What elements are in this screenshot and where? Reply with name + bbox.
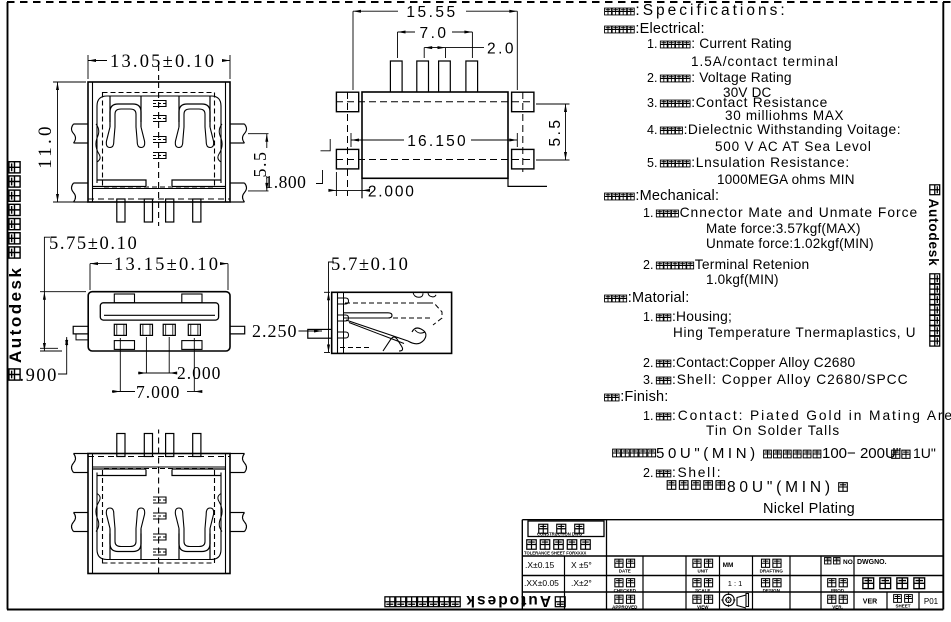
svg-text:VER: VER <box>863 599 877 606</box>
svg-text::Finish:: :Finish: <box>620 389 668 405</box>
svg-text::Shell:: :Shell: <box>672 465 722 480</box>
svg-text:50U"(MIN): 50U"(MIN) <box>656 445 759 462</box>
svg-text:1.: 1. <box>643 206 653 220</box>
svg-text:.X±2°: .X±2° <box>571 578 592 588</box>
svg-text:13.05±0.10: 13.05±0.10 <box>110 52 216 72</box>
svg-text:Cnnector Mate and Unmate F: Cnnector Mate and Unmate Force <box>680 205 919 220</box>
svg-text::Lnsulation Resistance:: :Lnsulation Resistance: <box>691 155 850 170</box>
svg-text:100− 200U": 100− 200U" <box>822 445 901 462</box>
svg-text:Hing Temperature Tnermapla: Hing Temperature Tnermaplastics, U <box>673 325 916 340</box>
svg-text:Autodesk: Autodesk <box>464 592 551 609</box>
svg-text:11.0: 11.0 <box>35 123 56 168</box>
svg-text:.900: .900 <box>20 366 58 386</box>
svg-text:7.000: 7.000 <box>136 382 180 402</box>
svg-text:1.: 1. <box>643 310 653 324</box>
svg-text::Electrical:: :Electrical: <box>635 21 704 37</box>
svg-text:.X±0.15: .X±0.15 <box>525 560 555 570</box>
svg-text:Tin On Solder Talls: Tin On Solder Talls <box>706 423 840 438</box>
svg-text:1.5A/contact terminal: 1.5A/contact terminal <box>691 54 839 69</box>
svg-text:3.: 3. <box>647 96 657 110</box>
svg-text:1U": 1U" <box>913 445 936 461</box>
svg-text:Nickel Plating: Nickel Plating <box>763 501 855 517</box>
svg-text::Contact:Copper Alloy C2680: :Contact:Copper Alloy C2680 <box>672 355 855 370</box>
svg-text:MM: MM <box>723 562 734 569</box>
svg-text::Specifications:: :Specifications: <box>635 2 787 19</box>
svg-text:TOLERANCE SHEET FORXXXX: TOLERANCE SHEET FORXXXX <box>524 551 586 556</box>
svg-text:15.55: 15.55 <box>406 4 457 21</box>
svg-text:2.: 2. <box>643 466 653 480</box>
svg-text::Dielectnic Withstanding Voi: :Dielectnic Withstanding Voitage: <box>684 122 901 137</box>
svg-text:VIEW: VIEW <box>697 605 709 610</box>
svg-text:2.000: 2.000 <box>368 184 416 201</box>
svg-text:: Current Rating: : Current Rating <box>691 36 792 51</box>
svg-text:2.250: 2.250 <box>252 321 298 341</box>
svg-text:1.: 1. <box>643 409 653 423</box>
svg-text:CHECKED: CHECKED <box>614 588 637 593</box>
svg-text:: Voltage Rating: : Voltage Rating <box>691 70 792 85</box>
svg-text:5.5: 5.5 <box>547 117 564 146</box>
svg-text:Autodesk: Autodesk <box>926 199 941 267</box>
svg-text::Shell: Copper Alloy C2680/: :Shell: Copper Alloy C2680/SPCC <box>672 372 909 387</box>
svg-text::Mechanical:: :Mechanical: <box>635 188 719 204</box>
svg-text:80U"(MIN): 80U"(MIN) <box>727 479 834 496</box>
svg-text:UNIT: UNIT <box>698 569 709 574</box>
svg-text:PROD: PROD <box>831 588 845 593</box>
svg-text::Contact: Piated Gold in M: :Contact: Piated Gold in Mating Area <box>672 408 951 423</box>
svg-text:DATE: DATE <box>619 569 631 574</box>
svg-text:2.000: 2.000 <box>177 363 221 383</box>
svg-text:P01: P01 <box>924 597 939 606</box>
svg-text:SCALE: SCALE <box>695 588 710 593</box>
svg-text:DWGNO.: DWGNO. <box>857 559 887 566</box>
svg-text:X ±5°: X ±5° <box>571 560 592 570</box>
svg-text:5.7±0.10: 5.7±0.10 <box>331 255 409 275</box>
svg-text:16.150: 16.150 <box>407 133 468 150</box>
svg-text:2.: 2. <box>647 71 657 85</box>
svg-text:CONSTRUCTION DWG: CONSTRUCTION DWG <box>537 532 582 537</box>
svg-text:3.: 3. <box>643 373 653 387</box>
svg-text:30 milliohms MAX: 30 milliohms MAX <box>725 108 844 123</box>
svg-text:NO.: NO. <box>843 559 855 566</box>
svg-text:1000MEGA ohms MIN: 1000MEGA ohms MIN <box>717 172 855 187</box>
svg-text:Terminal Retenion: Terminal Retenion <box>695 257 810 272</box>
svg-text:5.: 5. <box>647 156 657 170</box>
svg-text::Housing;: :Housing; <box>672 309 732 324</box>
svg-text:2.: 2. <box>643 258 653 272</box>
svg-text::Matorial:: :Matorial: <box>628 290 690 306</box>
svg-text:Unmate force:1.02kgf(MIN): Unmate force:1.02kgf(MIN) <box>706 236 874 251</box>
svg-text:VER.: VER. <box>832 605 843 610</box>
svg-text:5.75±0.10: 5.75±0.10 <box>49 234 138 254</box>
svg-text:1 : 1: 1 : 1 <box>728 579 743 588</box>
svg-text:4.: 4. <box>647 123 657 137</box>
svg-text:Autodesk: Autodesk <box>6 266 25 363</box>
svg-text:13.15±0.10: 13.15±0.10 <box>114 255 220 275</box>
svg-text:2.0: 2.0 <box>487 41 516 58</box>
svg-text:1.: 1. <box>647 37 657 51</box>
svg-text:7.0: 7.0 <box>419 25 448 42</box>
svg-text:APPROVED: APPROVED <box>612 605 638 610</box>
svg-text:DRAFTING: DRAFTING <box>760 569 784 574</box>
svg-text:1.800: 1.800 <box>265 172 307 192</box>
svg-text:SHEET: SHEET <box>895 604 910 609</box>
svg-text:1.0kgf(MIN): 1.0kgf(MIN) <box>706 272 779 287</box>
svg-text:500 V AC AT Sea Levol: 500 V AC AT Sea Levol <box>715 139 872 154</box>
svg-text:2.: 2. <box>643 356 653 370</box>
svg-text:DESIGN: DESIGN <box>763 588 780 593</box>
svg-text:.XX±0.05: .XX±0.05 <box>524 578 559 588</box>
svg-text:Mate force:3.57kgf(MAX): Mate force:3.57kgf(MAX) <box>706 221 861 236</box>
